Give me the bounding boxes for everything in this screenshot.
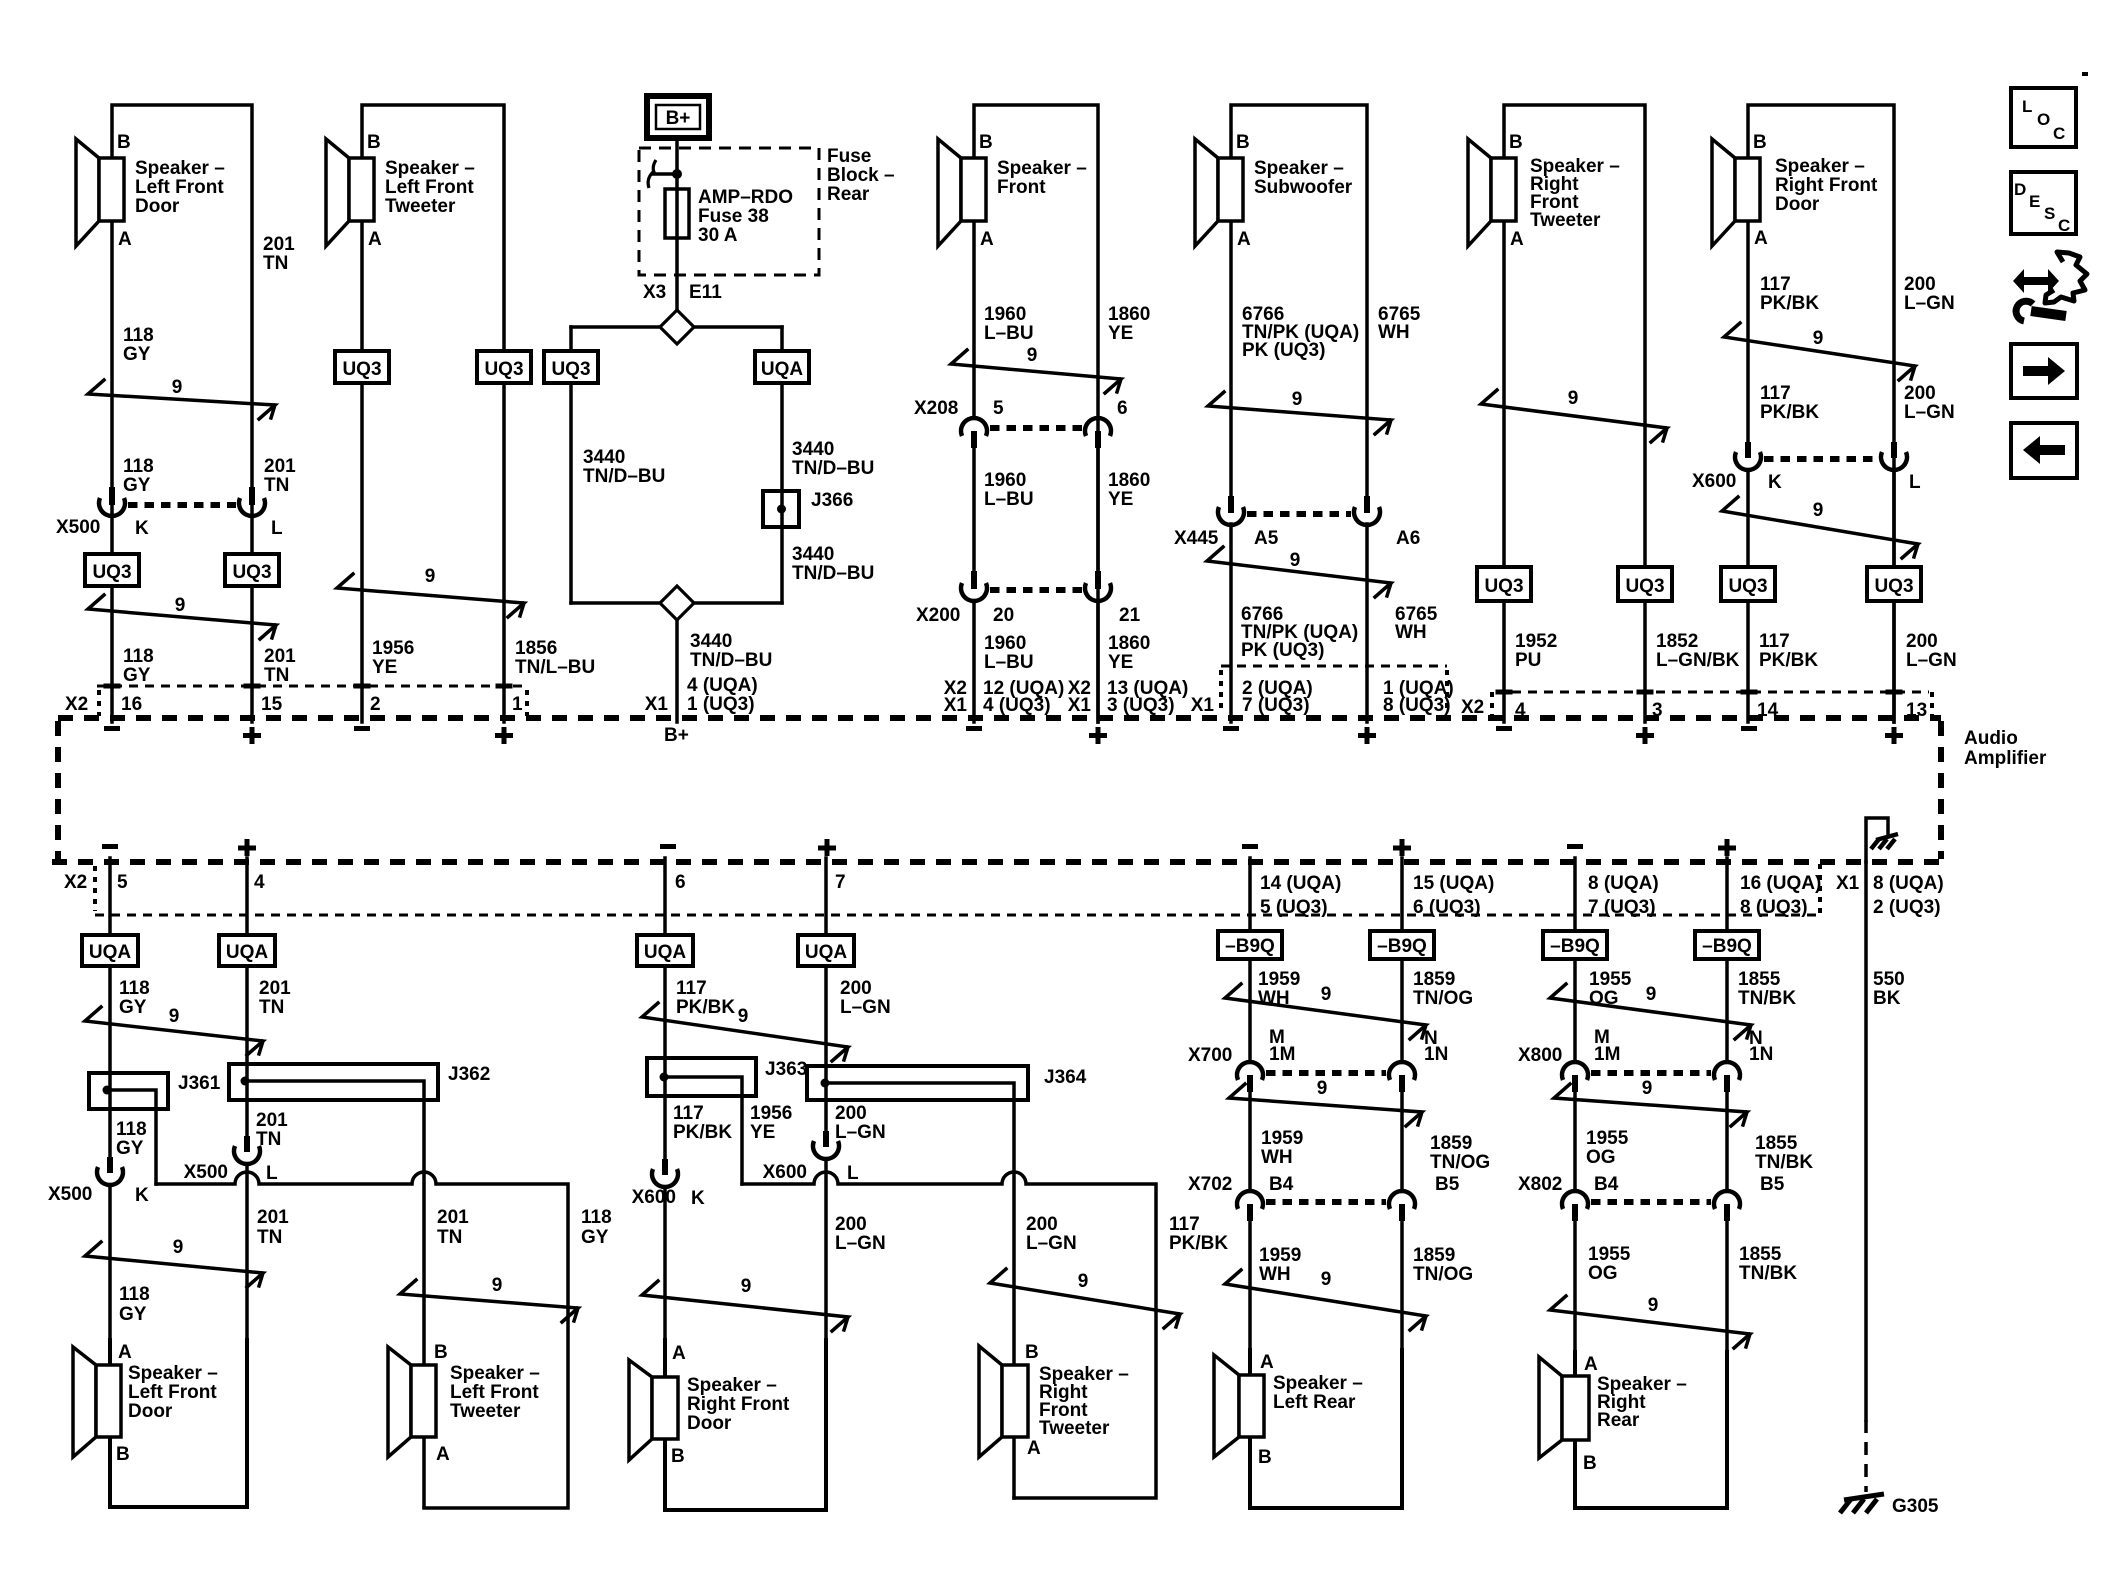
wire 550 BK [1864, 862, 1868, 1420]
svg-text:YE: YE [1108, 323, 1133, 344]
svg-text:B4: B4 [1594, 1174, 1619, 1195]
svg-text:K: K [135, 518, 149, 539]
polarity plus pin 4 [238, 839, 256, 856]
label M 1M [1269, 1027, 1295, 1065]
svg-text:TN/L–BU: TN/L–BU [515, 657, 595, 678]
svg-text:9: 9 [1027, 345, 1038, 366]
option box UQA (fuse branch) [755, 351, 809, 383]
label M 1M right rear [1594, 1027, 1620, 1065]
svg-text:1960: 1960 [984, 470, 1026, 491]
audio amplifier box top border [58, 715, 1941, 721]
wire label 1952 PU [1515, 631, 1557, 671]
connector X500 pin L [239, 487, 265, 516]
svg-text:5: 5 [993, 398, 1004, 419]
label Speaker Right Front Door bottom [687, 1375, 790, 1434]
svg-text:A: A [1260, 1352, 1274, 1373]
svg-text:4 (UQ3): 4 (UQ3) [983, 695, 1051, 716]
svg-text:YE: YE [372, 657, 397, 678]
svg-text:X1: X1 [1068, 695, 1092, 716]
svg-text:G305: G305 [1892, 1496, 1939, 1517]
svg-text:L–GN: L–GN [835, 1122, 886, 1143]
wire label 118 GY third [119, 1284, 150, 1325]
wire J361 branch 118 GY [110, 1090, 156, 1184]
svg-text:9: 9 [169, 1006, 180, 1027]
wire label 117 PK/BK second [673, 1103, 732, 1143]
svg-text:8 (UQ3): 8 (UQ3) [1383, 695, 1451, 716]
svg-text:5: 5 [117, 872, 128, 893]
svg-text:9: 9 [1813, 328, 1824, 349]
speaker icon left front door [76, 139, 124, 246]
wire label 1959 WH third [1259, 1245, 1301, 1285]
svg-text:TN: TN [259, 997, 284, 1018]
wire left branch 3440 [569, 327, 573, 603]
connector row line X2 left [97, 685, 527, 688]
svg-text:Left Front: Left Front [128, 1382, 217, 1403]
svg-text:L–GN: L–GN [1026, 1233, 1077, 1254]
pin label 8 (UQA) 2 (UQ3) ground [1873, 873, 1944, 918]
speaker right rear box [1575, 1352, 1727, 1508]
svg-text:L: L [266, 1163, 278, 1184]
svg-text:21: 21 [1119, 605, 1141, 626]
svg-text:X800: X800 [1518, 1045, 1562, 1066]
svg-text:1860: 1860 [1108, 470, 1150, 491]
svg-text:Speaker –: Speaker – [450, 1363, 540, 1384]
svg-text:B: B [367, 132, 381, 153]
svg-text:B: B [1509, 132, 1523, 153]
svg-text:117: 117 [1760, 274, 1791, 295]
pin tick bar 13 [1886, 690, 1903, 695]
wire label 1856 TN/L-BU [515, 638, 595, 678]
svg-text:–B9Q: –B9Q [1550, 936, 1600, 957]
svg-text:117: 117 [1759, 631, 1790, 652]
svg-text:14: 14 [1757, 700, 1779, 721]
wire label 6765 WH [1378, 304, 1421, 343]
svg-text:118: 118 [581, 1207, 612, 1228]
wire 1959 lower segment [1248, 1221, 1252, 1508]
svg-text:PK/BK: PK/BK [1760, 293, 1819, 314]
fuse AMP-RDO Fuse 38 30 A [665, 187, 793, 246]
connector X600 pin K bottom [632, 1159, 705, 1209]
connector X802 tie line [1591, 1199, 1711, 1205]
option box UQ3 (118 GY) [85, 554, 139, 586]
svg-text:L–GN: L–GN [840, 997, 891, 1018]
pin tick bar 16 [104, 684, 121, 689]
twisted pair 9 tweeter [400, 1275, 578, 1322]
svg-text:9: 9 [1290, 550, 1301, 571]
wire label 200 L-GN tweeter [1026, 1214, 1077, 1254]
wire 200 lower segment [1892, 470, 1896, 722]
svg-text:Door: Door [135, 196, 180, 217]
polarity minus pin 8 [1567, 844, 1583, 849]
speaker icon left rear [1214, 1355, 1264, 1457]
polarity minus pin 2 [354, 726, 370, 731]
svg-text:C: C [2053, 124, 2065, 143]
junction J364 [807, 1066, 1087, 1100]
svg-text:1859: 1859 [1413, 969, 1455, 990]
wire label 200 L-GN third [1906, 631, 1957, 671]
svg-text:L: L [271, 518, 283, 539]
wire 118 GY from amp pin 5 [108, 858, 112, 1157]
svg-text:PK/BK: PK/BK [1760, 402, 1819, 423]
svg-text:X2: X2 [65, 694, 88, 715]
option box UQ3 (1856) [477, 351, 531, 383]
wire 6766 lower segment [1229, 524, 1233, 722]
wire label 1955 OG third [1588, 1244, 1631, 1284]
junction J363 [647, 1058, 807, 1096]
connector label X3 / E11 [643, 282, 722, 303]
wire label 201 TN third [264, 646, 296, 686]
pin labels X2 X1 left stack [944, 678, 968, 716]
speaker left front tweeter outline [362, 105, 504, 722]
junction J361 [89, 1073, 221, 1109]
svg-text:1855: 1855 [1755, 1133, 1798, 1154]
wire label 1852 L-GN/BK [1656, 631, 1740, 671]
svg-text:13: 13 [1906, 700, 1927, 721]
audio amplifier box left border [55, 721, 61, 862]
svg-text:B: B [116, 1444, 130, 1465]
svg-text:1859: 1859 [1413, 1245, 1455, 1266]
svg-text:J362: J362 [448, 1064, 490, 1085]
wire label 1959 WH [1258, 969, 1300, 1009]
svg-text:TN/D–BU: TN/D–BU [792, 458, 874, 479]
svg-text:L–BU: L–BU [984, 652, 1034, 673]
twisted pair 9 second [1554, 1078, 1747, 1126]
option box UQA (201) [219, 935, 275, 966]
wire label 117 PK/BK third [1759, 631, 1818, 671]
connector X600 pin K [1735, 442, 1761, 470]
svg-text:200: 200 [840, 978, 872, 999]
svg-text:1956: 1956 [750, 1103, 792, 1124]
svg-text:A: A [1237, 229, 1251, 250]
svg-text:3440: 3440 [690, 631, 732, 652]
svg-text:J363: J363 [765, 1059, 807, 1080]
connector X208 pin 6 [1085, 418, 1111, 448]
svg-text:6: 6 [1117, 398, 1128, 419]
svg-text:Right Front: Right Front [1775, 175, 1878, 196]
wire label 200 L-GN third [835, 1214, 886, 1254]
audio amplifier box right border [1938, 721, 1944, 859]
label Speaker Right Front Tweeter bottom [1039, 1364, 1129, 1439]
wire label 1960 L-BU repeat [984, 470, 1034, 510]
svg-text:Left Front: Left Front [450, 1382, 539, 1403]
twisted pair 9 second [1229, 1078, 1422, 1126]
svg-text:–B9Q: –B9Q [1702, 936, 1752, 957]
svg-text:200: 200 [835, 1214, 867, 1235]
svg-text:E: E [2029, 192, 2040, 211]
svg-text:Speaker –: Speaker – [997, 158, 1087, 179]
svg-text:118: 118 [123, 325, 154, 346]
svg-text:AMP–RDO: AMP–RDO [698, 187, 793, 208]
ground G305 [1840, 1494, 1939, 1517]
polarity minus pin 14 [1741, 726, 1757, 731]
svg-text:7 (UQ3): 7 (UQ3) [1242, 695, 1310, 716]
svg-text:A: A [980, 229, 994, 250]
wire label 1860 YE repeat [1108, 470, 1150, 510]
svg-text:PK/BK: PK/BK [676, 997, 735, 1018]
option box UQA (117) [637, 935, 693, 966]
svg-text:X500: X500 [48, 1184, 92, 1205]
svg-text:9: 9 [172, 377, 183, 398]
svg-text:PU: PU [1515, 650, 1541, 671]
pin label 2 (UQA) 7 (UQ3) [1242, 678, 1313, 716]
svg-text:L–GN: L–GN [1906, 650, 1957, 671]
svg-text:X208: X208 [914, 398, 958, 419]
option box UQA (200) [798, 935, 854, 966]
wire 1955 mid segment [1573, 1092, 1577, 1191]
speaker right front door bottom box [665, 1340, 826, 1510]
dotted tick before pin 16 [97, 690, 101, 716]
svg-text:UQ3: UQ3 [1728, 576, 1767, 597]
svg-text:TN: TN [264, 475, 289, 496]
svg-text:118: 118 [116, 1119, 147, 1140]
svg-text:B+: B+ [666, 108, 691, 129]
svg-text:1M: 1M [1594, 1044, 1620, 1065]
icon box LOC [2011, 88, 2076, 147]
twisted pair 9 [1724, 323, 1915, 380]
wire 1959 mid segment [1248, 1092, 1252, 1191]
svg-text:L: L [2022, 97, 2032, 116]
wire splice horizontal [571, 325, 782, 329]
polarity plus pin 3 [1636, 727, 1654, 744]
wire 117 lower segment [1746, 470, 1750, 722]
svg-text:B4: B4 [1269, 1174, 1294, 1195]
polarity plus pin 13 [1089, 727, 1107, 744]
svg-text:L–GN: L–GN [835, 1233, 886, 1254]
svg-text:WH: WH [1261, 1147, 1293, 1168]
svg-text:TN: TN [257, 1227, 282, 1248]
svg-text:L–GN: L–GN [1904, 402, 1955, 423]
svg-text:Subwoofer: Subwoofer [1254, 177, 1353, 198]
connector X600 pin L [1881, 442, 1907, 470]
svg-text:200: 200 [1904, 274, 1936, 295]
svg-text:GY: GY [119, 997, 147, 1018]
connector X702 pin B5 [1389, 1191, 1415, 1221]
svg-text:118: 118 [123, 456, 154, 477]
svg-text:K: K [1768, 472, 1782, 493]
wire J364 branch 200 L-GN [828, 1083, 1014, 1498]
fuse block rear dashed outline [639, 148, 819, 275]
twisted pair 9 tweeter [990, 1269, 1180, 1328]
svg-text:X1: X1 [1191, 695, 1215, 716]
svg-text:X600: X600 [1692, 471, 1736, 492]
wire label 1855 TN/BK third [1739, 1244, 1797, 1284]
svg-text:B: B [671, 1446, 685, 1467]
svg-text:6: 6 [675, 872, 686, 893]
svg-text:GY: GY [123, 475, 151, 496]
wire 200 below connector [824, 1159, 828, 1510]
svg-text:9: 9 [1321, 1269, 1332, 1290]
twisted pair 9 second [1207, 547, 1391, 597]
svg-text:9: 9 [175, 595, 186, 616]
svg-text:WH: WH [1259, 1264, 1291, 1285]
label N 1N [1424, 1028, 1448, 1065]
pin tick bar 4 [1496, 690, 1513, 695]
svg-text:200: 200 [1026, 1214, 1058, 1235]
pin label 13 (UQA) 3 (UQ3) [1107, 678, 1188, 716]
svg-text:Tweeter: Tweeter [385, 196, 456, 217]
svg-text:B: B [434, 1342, 448, 1363]
svg-text:9: 9 [741, 1276, 752, 1297]
pin labels X2 X1 right stack [1068, 678, 1092, 716]
svg-text:GY: GY [123, 344, 151, 365]
option box UQ3 (1952 PU) [1477, 567, 1531, 601]
polarity plus pin 15 [243, 727, 261, 744]
svg-text:B5: B5 [1435, 1174, 1460, 1195]
svg-text:E11: E11 [689, 282, 722, 303]
twisted pair 9 [951, 345, 1121, 393]
svg-text:A: A [368, 229, 382, 250]
svg-text:4: 4 [1515, 700, 1526, 721]
svg-text:1M: 1M [1269, 1044, 1295, 1065]
option box UQ3 (fuse branch) [544, 351, 598, 383]
svg-text:200: 200 [1906, 631, 1938, 652]
wire 1860 lower segments [1096, 448, 1100, 722]
speaker icon right front tweeter [1468, 139, 1516, 246]
svg-text:UQA: UQA [226, 942, 269, 963]
connector X702 pin B4 [1237, 1191, 1263, 1221]
svg-text:TN/BK: TN/BK [1739, 1263, 1797, 1284]
wire to amplifier B+ pin [675, 620, 679, 722]
svg-text:A: A [672, 1343, 686, 1364]
dotted tick bottom right [1818, 864, 1822, 916]
pin tick bar 2 [354, 684, 371, 689]
svg-text:YE: YE [1108, 489, 1133, 510]
connector X800 pin N [1714, 1062, 1740, 1092]
wire 117 PK/BK from amp pin 6 [663, 858, 667, 1159]
polarity plus pin 1uqa [1358, 727, 1376, 744]
polarity plus pin 1 [495, 727, 513, 744]
wire 1855 lower segment [1725, 1221, 1729, 1508]
twisted pair 9 [1208, 389, 1391, 434]
svg-text:UQ3: UQ3 [1874, 576, 1913, 597]
polarity minus pin 14b [1242, 844, 1258, 849]
svg-text:8 (UQA): 8 (UQA) [1873, 873, 1944, 894]
svg-text:PK/BK: PK/BK [1169, 1233, 1228, 1254]
dotted tick after X2 [1490, 692, 1494, 716]
svg-text:L–GN/BK: L–GN/BK [1656, 650, 1740, 671]
pin label 16 (UQA) 8 (UQ3) [1740, 873, 1821, 918]
svg-text:3 (UQ3): 3 (UQ3) [1107, 695, 1175, 716]
pin tick bar 1 [496, 684, 513, 689]
pin label 8 (UQA) 7 (UQ3) [1588, 873, 1659, 918]
svg-text:16 (UQA): 16 (UQA) [1740, 873, 1821, 894]
svg-text:9: 9 [1642, 1078, 1653, 1099]
wire 6765 lower segment [1365, 524, 1369, 722]
svg-text:1 (UQ3): 1 (UQ3) [687, 694, 755, 715]
svg-text:UQ3: UQ3 [1625, 576, 1664, 597]
svg-text:X600: X600 [763, 1162, 807, 1183]
connector X802 pin B5 [1714, 1191, 1740, 1221]
svg-text:9: 9 [1317, 1078, 1328, 1099]
label Speaker Subwoofer [1254, 158, 1353, 198]
svg-text:2: 2 [370, 694, 381, 715]
amp internal ground symbol [1866, 818, 1898, 862]
svg-text:–B9Q: –B9Q [1225, 936, 1275, 957]
wire 201 TN from amp pin 4 [245, 858, 249, 1136]
label N 1N right rear [1749, 1028, 1773, 1065]
svg-text:A: A [436, 1444, 450, 1465]
polarity plus pin 13b [1885, 727, 1903, 744]
svg-text:TN/D–BU: TN/D–BU [583, 466, 665, 487]
svg-text:X600: X600 [632, 1187, 676, 1208]
connector X800 tie line [1591, 1070, 1711, 1076]
wire label 200 L-GN [1904, 274, 1955, 314]
svg-text:Left Front: Left Front [385, 177, 474, 198]
svg-text:1956: 1956 [372, 638, 414, 659]
connector row line bottom [95, 914, 1820, 917]
option box UQ3 (201 TN) [225, 554, 279, 586]
connector X800 pin M [1562, 1062, 1588, 1092]
svg-text:B: B [117, 132, 131, 153]
icon squiggle with double arrow and wrench [2013, 252, 2087, 321]
svg-text:B: B [1236, 132, 1250, 153]
svg-text:B+: B+ [664, 725, 689, 746]
wire label 1860 YE third [1108, 633, 1150, 673]
pin tick bar 15 [244, 684, 261, 689]
speaker icon left front tweeter [326, 139, 374, 246]
svg-text:8 (UQA): 8 (UQA) [1588, 873, 1659, 894]
svg-text:Tweeter: Tweeter [1530, 210, 1601, 231]
label Speaker Left Front Tweeter [385, 158, 475, 217]
label Speaker Right Rear [1597, 1374, 1687, 1431]
svg-text:X200: X200 [916, 605, 960, 626]
svg-text:PK/BK: PK/BK [673, 1122, 732, 1143]
svg-text:Door: Door [687, 1413, 732, 1434]
wire label 1955 OG [1589, 969, 1632, 1009]
svg-text:Audio: Audio [1964, 728, 2018, 749]
label Audio Amplifier [1964, 728, 2047, 769]
junction J366 [763, 490, 853, 527]
svg-text:X1: X1 [645, 694, 669, 715]
svg-text:9: 9 [492, 1275, 503, 1296]
svg-text:1N: 1N [1424, 1044, 1448, 1065]
wire label 3440 TN/D-BU left [583, 447, 665, 487]
connector X208 tie line [990, 425, 1082, 431]
wire label 3440 TN/D-BU bottom [690, 631, 772, 671]
label Speaker Right Front Tweeter [1530, 156, 1620, 231]
wire label 118 GY third [123, 646, 154, 686]
svg-text:X2: X2 [64, 872, 87, 893]
svg-text:201: 201 [256, 1110, 288, 1131]
wire 117 below connector [663, 1187, 667, 1510]
connector detail dashed box [1221, 666, 1447, 714]
speaker left front door bottom box [110, 1340, 247, 1507]
twisted pair 9 [642, 1003, 848, 1061]
pin label 15 (UQA) 6 (UQ3) [1413, 873, 1494, 918]
svg-text:L: L [1909, 472, 1921, 493]
speaker front outline [974, 105, 1098, 722]
twisted pair 9 [1481, 388, 1667, 442]
svg-text:UQ3: UQ3 [232, 562, 271, 583]
fuse clip symbol [648, 160, 682, 188]
svg-text:GY: GY [581, 1227, 609, 1248]
twisted pair 9 [88, 377, 275, 419]
svg-text:B: B [1025, 1342, 1039, 1363]
label Speaker Right Front Door [1775, 156, 1878, 215]
speaker icon left front tweeter bottom [388, 1347, 436, 1457]
option box -B9Q (1855) [1695, 931, 1759, 959]
svg-text:550: 550 [1873, 969, 1905, 990]
svg-text:Right Front: Right Front [687, 1394, 790, 1415]
pin label 14 (UQA) 5 (UQ3) [1260, 873, 1341, 918]
svg-text:201: 201 [264, 646, 296, 667]
svg-text:–B9Q: –B9Q [1377, 936, 1427, 957]
twisted pair 9 second [85, 1237, 263, 1287]
svg-text:OG: OG [1588, 1263, 1618, 1284]
svg-text:201: 201 [257, 1207, 289, 1228]
svg-text:X1: X1 [1836, 873, 1860, 894]
connector X200 tie line [990, 587, 1082, 593]
